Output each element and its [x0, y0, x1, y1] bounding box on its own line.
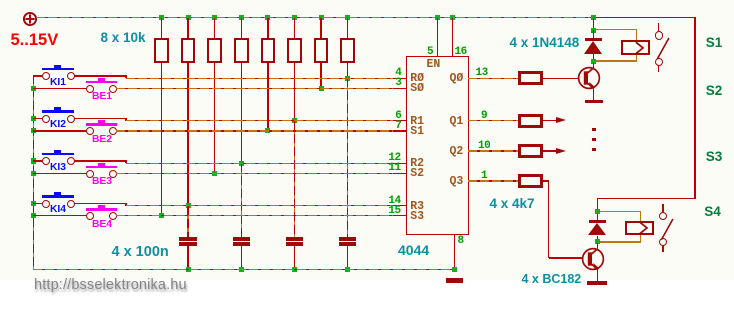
pin number 4 — [395, 68, 401, 79]
resistor 10k column 4 — [239, 15, 244, 20]
resistor 4k7 R3 row — [468, 180, 518, 181]
wire +V to S4 block — [597, 198, 696, 199]
IC label R2 — [410, 158, 424, 170]
node diode anode S1 — [591, 59, 596, 64]
label 4044 — [398, 243, 429, 257]
label BE1 — [92, 92, 112, 102]
pin number 10 — [478, 141, 490, 152]
wire +V top rail — [36, 17, 592, 18]
IC label Q1 — [450, 116, 464, 128]
pin number 15 — [388, 206, 400, 217]
wire Q3 to transistor base — [543, 180, 549, 181]
label KI2 — [50, 120, 66, 130]
footer url text — [34, 277, 187, 293]
IC label S1 — [410, 126, 424, 138]
push button BE2 — [31, 128, 36, 133]
label 4 x BC182 — [522, 273, 582, 286]
node diode anode S4 — [595, 239, 600, 244]
footer strip — [0, 280, 734, 313]
ground symbol S1 — [585, 100, 603, 104]
relay coil K4 — [600, 211, 641, 212]
resistor 10k column 8 — [345, 15, 350, 20]
pin number 9 — [481, 111, 487, 122]
ground symbol IC — [446, 278, 464, 283]
wire Q0 to transistor base — [543, 78, 578, 79]
IC label R&Oslash; — [410, 73, 424, 85]
push button KI2 — [31, 116, 36, 121]
relay contact switch S4 — [662, 204, 664, 212]
power supply symbol +V — [21, 10, 39, 28]
label BE3 — [92, 177, 112, 187]
arrow continuation Q1 — [543, 120, 556, 121]
push button BE3 — [31, 171, 36, 176]
wire emitter S1 — [593, 89, 594, 100]
transistor Q1 BC182 — [576, 65, 602, 91]
resistor 10k column 2 — [186, 15, 191, 20]
transistor Q4 BC182 — [580, 246, 606, 272]
label 5..15V — [11, 32, 59, 49]
resistor 10k column 6 — [292, 15, 297, 20]
arrow continuation Q2 — [543, 150, 556, 151]
resistor 10k column 5 — [265, 15, 270, 20]
label BE4 — [92, 220, 112, 230]
resistor 4k7 R2 row — [468, 150, 518, 151]
pin number 6 — [395, 111, 401, 122]
pin number 1 — [481, 171, 487, 182]
label 4 x 1N4148 — [510, 36, 580, 50]
label S1 — [706, 36, 723, 50]
pin number 7 — [395, 121, 401, 132]
op IC 4044 body — [406, 56, 468, 235]
IC label R1 — [410, 116, 424, 128]
push button KI3 — [31, 158, 36, 163]
resistor 10k column 1 — [159, 15, 164, 20]
ellipsis dots — [592, 128, 595, 131]
pin number 16 — [455, 47, 467, 58]
label KI3 — [50, 163, 66, 173]
IC label EN — [427, 59, 441, 71]
capacitor 100n C4 — [187, 206, 188, 237]
IC pin 8 GND wire — [454, 235, 455, 269]
ground symbol S4 — [587, 281, 607, 285]
capacitor 100n C3 — [241, 163, 242, 237]
wire +V right rail — [694, 17, 695, 200]
label S2 — [706, 84, 723, 98]
IC label S&Oslash; — [410, 83, 424, 95]
resistor 4k7 R0 row — [468, 78, 518, 79]
wire bottom GND rail — [33, 269, 455, 270]
capacitor 100n C1 — [347, 78, 348, 237]
pin number 13 — [476, 68, 488, 79]
IC label S3 — [410, 211, 424, 223]
push button KI4 — [31, 201, 36, 206]
pin number 11 — [388, 163, 400, 174]
label 4 x 4k7 — [490, 197, 535, 211]
diode 1N4148 D1 — [593, 30, 594, 38]
resistor 4k7 R1 row — [468, 120, 518, 121]
label BE2 — [92, 135, 112, 145]
label S3 — [706, 150, 723, 164]
node diode cathode S4 — [595, 209, 600, 214]
relay coil K1 — [596, 29, 637, 30]
wire emitter S4 — [597, 269, 598, 281]
IC label Q2 — [450, 146, 464, 158]
junction on +V rail S1 — [591, 15, 596, 20]
capacitor 100n C2 — [294, 121, 295, 237]
pin number 3 — [395, 78, 401, 89]
IC pin 16 VCC wire — [450, 15, 455, 20]
IC label S2 — [410, 168, 424, 180]
label KI1 — [50, 78, 66, 88]
wire left rail — [33, 75, 34, 270]
pin number 14 — [388, 196, 400, 207]
diode 1N4148 D4 — [597, 214, 598, 221]
IC label Q0 — [450, 73, 464, 85]
push button BE4 — [31, 213, 36, 218]
label 4 x 100n — [112, 245, 169, 260]
push button KI1 — [33, 75, 42, 76]
resistor 10k column 3 — [212, 15, 217, 20]
label 8 x 10k — [101, 31, 146, 45]
pin number 8 — [458, 236, 465, 247]
node diode cathode S1 — [591, 28, 596, 33]
IC label Q3 — [450, 176, 464, 188]
label S4 — [704, 205, 721, 219]
relay contact switch S1 — [658, 23, 660, 31]
IC pin 5 EN wire — [435, 15, 440, 20]
IC label R3 — [410, 201, 424, 213]
pin number 5 — [427, 47, 434, 58]
push button BE1 — [31, 86, 36, 91]
pin number 12 — [388, 153, 400, 164]
label KI4 — [50, 205, 66, 215]
resistor 10k column 7 — [319, 15, 324, 20]
